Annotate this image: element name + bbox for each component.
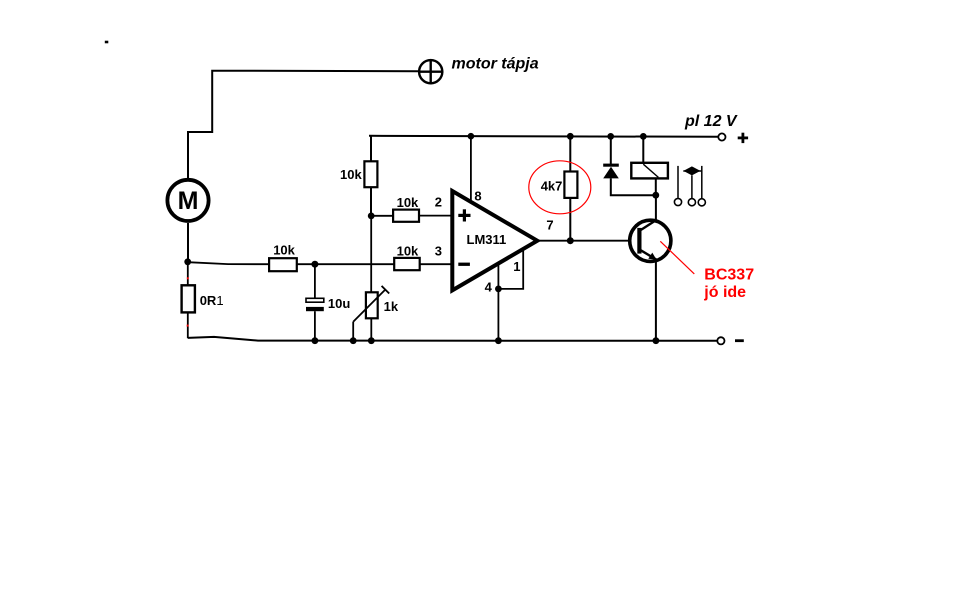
- wire R1 to divider node: [370, 187, 372, 216]
- wire node A down to C1: [314, 264, 316, 298]
- junction pin8 at rail: [468, 133, 475, 140]
- svg-text:3: 3: [435, 244, 442, 259]
- ground rail (0V): [188, 337, 718, 341]
- resistor R6 0R1 (shunt): [182, 285, 195, 312]
- junction P1 at rail: [368, 337, 375, 344]
- wire Q1 emitter to ground rail: [655, 260, 657, 341]
- junction node A (cap tap): [311, 261, 318, 268]
- resistor R4 10k (pin3): [394, 258, 420, 270]
- terminal +12V: [718, 133, 725, 140]
- wire sense node to R2: [188, 262, 269, 264]
- svg-text:4k7: 4k7: [541, 178, 563, 193]
- wire P1 wiper to ground rail: [352, 322, 354, 341]
- svg-text:1k: 1k: [384, 299, 399, 314]
- svg-text:M: M: [178, 187, 199, 215]
- wire rail to R5: [569, 136, 571, 171]
- junction R5 at rail: [567, 133, 574, 140]
- terminal J1 motor supply (circle-plus): [418, 59, 443, 84]
- wire R3 to pin 2: [419, 215, 452, 217]
- svg-text:BC337: BC337: [704, 267, 754, 284]
- wire R5 to output node: [569, 198, 571, 241]
- relay contact common with movable blade: [683, 166, 701, 205]
- svg-text:7: 7: [546, 217, 553, 232]
- svg-text:10k: 10k: [273, 243, 295, 258]
- red pointer line to Q1: [660, 241, 694, 274]
- wire output pin 7: [537, 240, 639, 242]
- wire pin 4 to ground rail: [497, 264, 499, 341]
- resistor R1 10k (divider top): [364, 161, 377, 187]
- plus sign: [738, 133, 748, 143]
- junction pin4 at rail: [495, 337, 502, 344]
- terminal 0V: [717, 337, 724, 344]
- wire relay to collector node: [655, 178, 657, 195]
- wire node A to R4 (crosses divider net): [315, 263, 394, 265]
- relay contact left: [674, 166, 681, 206]
- red tick below R6: [187, 325, 189, 327]
- svg-text:2: 2: [435, 195, 442, 210]
- wire collector node down to Q1: [655, 195, 657, 222]
- resistor R3 10k (pin2): [393, 210, 419, 222]
- svg-text:8: 8: [474, 188, 481, 203]
- wire pin 1 stub: [498, 250, 523, 289]
- red tick above R6: [187, 277, 189, 279]
- stray mark: [105, 41, 109, 44]
- junction sense node at motor: [184, 258, 191, 265]
- svg-text:jó ide: jó ide: [703, 284, 746, 301]
- relay K1 coil: [631, 163, 668, 179]
- wire divider node to R3: [371, 215, 394, 217]
- svg-text:10k: 10k: [397, 243, 419, 258]
- svg-text:0R1: 0R1: [200, 293, 224, 308]
- wire rail to relay K1: [642, 136, 644, 163]
- top rail +12V: [369, 136, 718, 137]
- transistor Q1: [630, 220, 671, 261]
- capacitor C1 10u: [306, 298, 324, 311]
- svg-text:pl 12 V: pl 12 V: [684, 113, 738, 130]
- svg-text:10k: 10k: [397, 195, 419, 210]
- diode D1: [603, 136, 656, 195]
- wire sense node to R6: [187, 262, 189, 286]
- junction Q1 emitter at rail: [653, 337, 660, 344]
- red highlight ellipse around 4k7: [529, 161, 591, 214]
- junction output node: [567, 237, 574, 244]
- wire motor to sense node: [187, 223, 189, 262]
- wire divider node down to P1 (crosses sense wire): [370, 216, 372, 293]
- junction diode at rail: [607, 133, 614, 140]
- wire pin 8 to rail: [470, 136, 472, 203]
- minus sign: [735, 339, 744, 342]
- wire rail to R1: [370, 136, 372, 162]
- svg-text:10k: 10k: [340, 167, 362, 182]
- wire P1 bottom to ground rail: [370, 318, 372, 340]
- junction collector node: [652, 192, 659, 199]
- wire C1 to ground rail: [314, 311, 316, 341]
- motor M1: [167, 180, 208, 221]
- junction P1 wiper at rail: [350, 337, 357, 344]
- junction relay at rail: [640, 133, 647, 140]
- svg-text:4: 4: [485, 280, 493, 295]
- op-amp U1 LM311: [452, 191, 537, 290]
- svg-text:motor tápja: motor tápja: [452, 56, 539, 73]
- svg-text:1: 1: [513, 259, 520, 274]
- svg-text:LM311: LM311: [467, 232, 507, 247]
- relay contact right: [698, 166, 705, 206]
- wire R2 to node A: [297, 263, 315, 265]
- wire R4 to pin 3: [420, 263, 452, 265]
- resistor R2 10k: [269, 258, 297, 271]
- svg-text:10u: 10u: [328, 296, 350, 311]
- potentiometer P1 1k: [353, 286, 389, 322]
- junction pin1-pin4: [495, 286, 502, 293]
- wire motor feed from terminal to motor: [188, 71, 419, 180]
- junction C1 at rail: [312, 337, 319, 344]
- resistor R5 4k7: [564, 172, 577, 198]
- wire R6 to ground rail: [187, 312, 189, 338]
- junction divider node: [368, 213, 375, 220]
